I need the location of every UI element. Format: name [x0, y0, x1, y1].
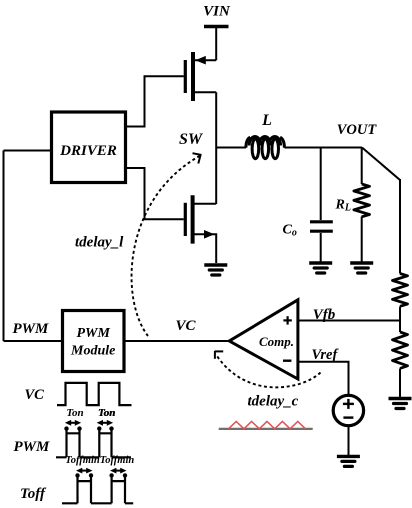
wire inductor to VOUT — [284, 147, 362, 149]
wire PMOS drain — [195, 91, 217, 93]
op-amp U3 comparator — [229, 300, 298, 379]
svg-text:VIN: VIN — [203, 4, 231, 20]
sawtooth ramp baseline — [219, 428, 313, 430]
svg-text:SW: SW — [179, 131, 204, 148]
wire divider top vertical — [399, 179, 401, 274]
wire NMOS source to ground — [195, 234, 217, 263]
PWM Module box U2 — [63, 311, 125, 372]
wire divider bottom to ground — [399, 369, 401, 398]
svg-text:Ton: Ton — [66, 407, 83, 419]
svg-text:tdelay_l: tdelay_l — [75, 235, 124, 251]
dots Toff corners — [75, 473, 127, 477]
wire DRIVER input — [4, 150, 52, 152]
arrowhead tdelay_c — [215, 351, 223, 359]
ground under source — [337, 456, 360, 466]
wire VOUT diagonal to divider — [362, 148, 400, 181]
wire NMOS drain — [195, 203, 217, 205]
wire DRIVER bottom output to NMOS gate — [125, 168, 184, 219]
arrow Toffmin 1 — [76, 468, 93, 474]
svg-text:VC: VC — [176, 318, 197, 334]
wire RL bottom to ground — [361, 217, 363, 262]
resistor RL — [354, 184, 370, 217]
svg-text:Toffmin: Toffmin — [65, 455, 100, 466]
waveform VC — [57, 383, 132, 405]
sawtooth ramp red — [229, 421, 306, 428]
comparator minus input mark — [283, 360, 291, 362]
svg-text:Toffmin: Toffmin — [100, 455, 135, 466]
wire SW to inductor — [216, 147, 246, 149]
resistor R1 feedback top — [393, 274, 408, 307]
wire left bus vertical — [3, 151, 5, 342]
arrow Toffmin 2 — [110, 468, 126, 474]
ground under RL — [350, 263, 373, 273]
svg-text:PWM: PWM — [14, 439, 51, 455]
wire PMOS source — [195, 59, 217, 61]
voltage source V1 — [333, 395, 363, 425]
svg-text:Ton: Ton — [98, 407, 115, 419]
arrowhead tdelay_l — [193, 153, 202, 163]
waveform PWM — [56, 429, 131, 458]
ground under divider — [389, 399, 412, 409]
svg-text:Toff: Toff — [20, 486, 47, 502]
wire divider middle node — [399, 307, 401, 333]
svg-text:PWM: PWM — [13, 321, 50, 337]
wire PWM to module — [4, 340, 63, 342]
wire source to ground — [348, 426, 350, 456]
arrow Ton 1 — [65, 420, 81, 426]
svg-text:Module: Module — [70, 343, 115, 358]
wire SW vertical — [215, 92, 217, 204]
ground under NMOS — [204, 265, 227, 275]
comparator plus input mark — [283, 316, 291, 324]
wire Vref to source — [298, 362, 349, 396]
node VIN supply bar — [204, 25, 229, 28]
transistor Q2 NMOS — [185, 195, 214, 243]
wire Vfb — [298, 320, 400, 322]
svg-text:Vref: Vref — [312, 347, 340, 363]
DRIVER box U1 — [52, 112, 126, 183]
svg-text:Comp.: Comp. — [259, 334, 294, 349]
wire VC module to comparator — [124, 340, 230, 342]
waveform Toff — [62, 476, 133, 504]
wire Co bottom to ground — [320, 233, 322, 262]
svg-text:L: L — [261, 112, 272, 129]
wire VIN drop — [215, 27, 217, 60]
ground under Co — [309, 263, 332, 273]
svg-text:DRIVER: DRIVER — [59, 143, 117, 159]
capacitor Co — [310, 222, 333, 231]
svg-text:tdelay_c: tdelay_c — [248, 394, 299, 410]
wire DRIVER top output to PMOS gate — [125, 76, 184, 126]
wire RL top branch — [361, 148, 363, 185]
resistor R2 feedback bottom — [393, 332, 408, 368]
arrow Ton 2 — [97, 420, 113, 426]
svg-text:VC: VC — [25, 387, 45, 403]
dashed arc tdelay_l — [132, 156, 200, 336]
svg-text:VOUT: VOUT — [337, 122, 378, 138]
svg-text:PWM: PWM — [76, 326, 110, 341]
svg-text:Vfb: Vfb — [313, 307, 336, 323]
transistor Q1 PMOS — [185, 52, 206, 101]
dashed arc tdelay_c — [217, 356, 321, 387]
dots PWM corners — [64, 426, 113, 430]
wire Co top branch — [320, 148, 322, 221]
inductor L — [246, 137, 285, 159]
